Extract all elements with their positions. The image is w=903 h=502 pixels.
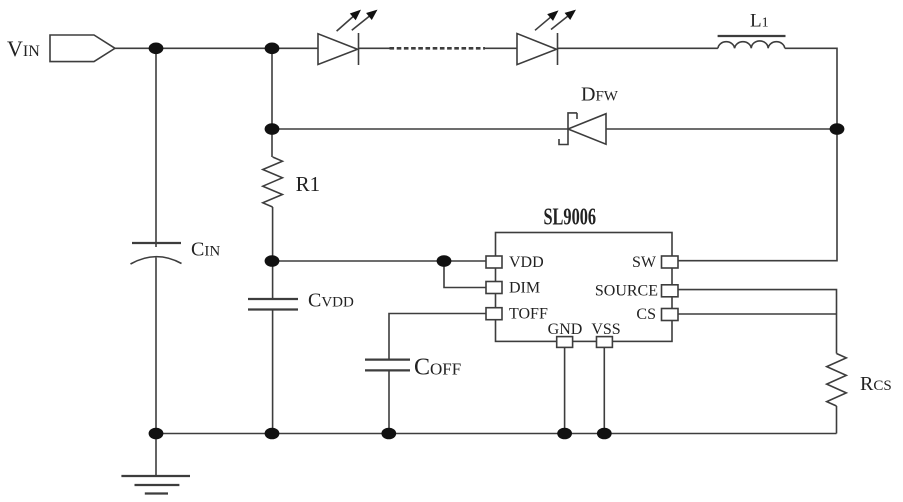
svg-text:R1: R1 <box>296 172 321 196</box>
svg-text:SL9006: SL9006 <box>544 205 597 231</box>
svg-text:CIN: CIN <box>191 239 220 261</box>
svg-text:DFW: DFW <box>581 84 619 106</box>
svg-text:CVDD: CVDD <box>308 290 354 312</box>
svg-text:COFF: COFF <box>414 355 461 381</box>
svg-text:VDD: VDD <box>509 254 544 271</box>
svg-text:VIN: VIN <box>7 36 40 61</box>
svg-text:L1: L1 <box>750 11 769 32</box>
svg-text:DIM: DIM <box>509 280 540 297</box>
svg-text:RCS: RCS <box>860 373 892 395</box>
svg-text:VSS: VSS <box>591 321 620 338</box>
svg-text:SW: SW <box>632 254 657 271</box>
svg-text:SOURCE: SOURCE <box>595 283 658 300</box>
svg-text:CS: CS <box>636 306 656 323</box>
svg-text:GND: GND <box>548 321 583 338</box>
svg-text:TOFF: TOFF <box>509 306 548 323</box>
